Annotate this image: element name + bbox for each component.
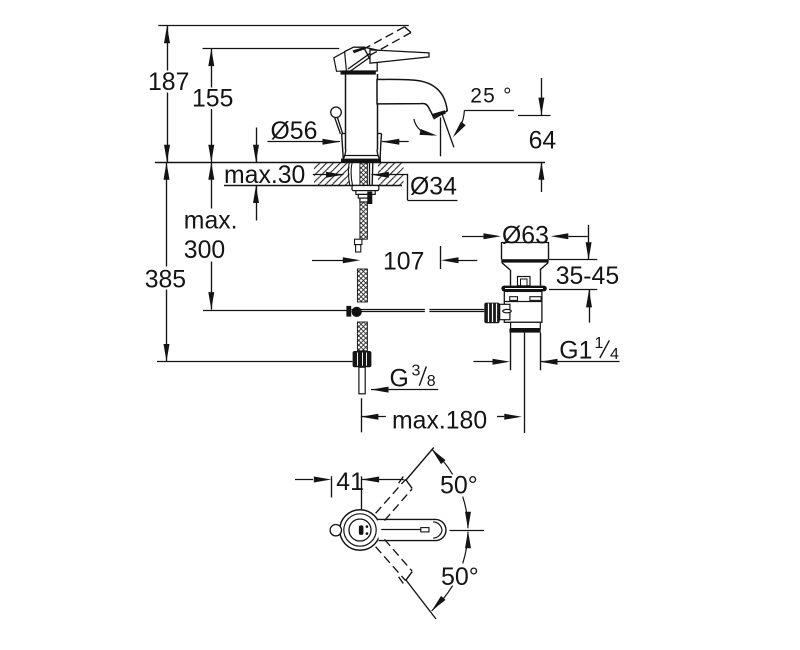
svg-text:187: 187	[148, 69, 189, 96]
svg-text:155: 155	[192, 86, 233, 113]
svg-text:max.: max.	[184, 207, 238, 234]
svg-text:8: 8	[427, 373, 436, 390]
svg-text:50°: 50°	[440, 472, 478, 500]
svg-text:3: 3	[412, 362, 421, 379]
svg-text:4: 4	[610, 346, 619, 363]
svg-text:25 °: 25 °	[470, 85, 512, 108]
svg-text:300: 300	[184, 237, 225, 264]
svg-text:1: 1	[595, 335, 604, 352]
svg-text:max.30: max.30	[224, 162, 305, 189]
svg-text:41: 41	[336, 469, 364, 496]
svg-text:35-45: 35-45	[556, 263, 619, 290]
svg-text:Ø56: Ø56	[271, 118, 318, 145]
svg-text:Ø63: Ø63	[502, 223, 549, 250]
svg-text:107: 107	[383, 249, 424, 276]
svg-text:385: 385	[145, 267, 186, 294]
svg-text:64: 64	[529, 127, 557, 154]
svg-text:50°: 50°	[441, 563, 479, 591]
svg-text:max.180: max.180	[392, 408, 487, 435]
svg-text:G1: G1	[559, 338, 592, 365]
svg-text:G: G	[390, 366, 409, 393]
svg-text:Ø34: Ø34	[410, 174, 457, 201]
